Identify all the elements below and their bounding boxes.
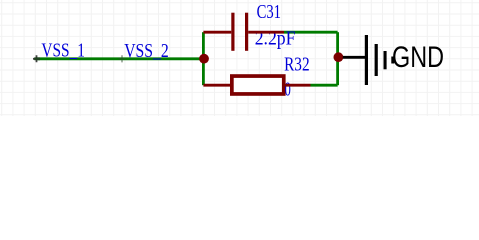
- wire VSS_1 / VSS_2 main horizontal: [36, 57, 205, 60]
- junction node left: [199, 54, 209, 64]
- power port GND symbol bars: [365, 35, 395, 85]
- sheet background: [0, 0, 479, 116]
- wire left vertical: [202, 32, 205, 85]
- wire segment joint cross: [118, 55, 125, 62]
- capacitor C31 pin 1: [203, 31, 231, 34]
- resistor R32 body: [232, 76, 284, 94]
- svg-text:0: 0: [285, 79, 291, 100]
- wire bottom right green: [311, 84, 338, 87]
- resistor R32 pin 2: [286, 84, 311, 87]
- wire top right green: [284, 31, 338, 34]
- svg-text:VSS_1: VSS_1: [41, 41, 85, 62]
- wire end marker (dangling tip cross): [33, 55, 40, 62]
- wire right vertical: [336, 32, 339, 85]
- resistor R32 pin 1: [203, 84, 230, 87]
- svg-text:R32: R32: [284, 54, 310, 75]
- capacitor C31 plates: [231, 13, 248, 51]
- wire to ground (black): [343, 56, 365, 59]
- junction node right: [334, 52, 344, 62]
- capacitor C31 pin 2: [248, 31, 284, 34]
- svg-text:C31: C31: [257, 2, 281, 23]
- svg-text:VSS_2: VSS_2: [124, 41, 169, 62]
- svg-text:GND: GND: [392, 41, 444, 74]
